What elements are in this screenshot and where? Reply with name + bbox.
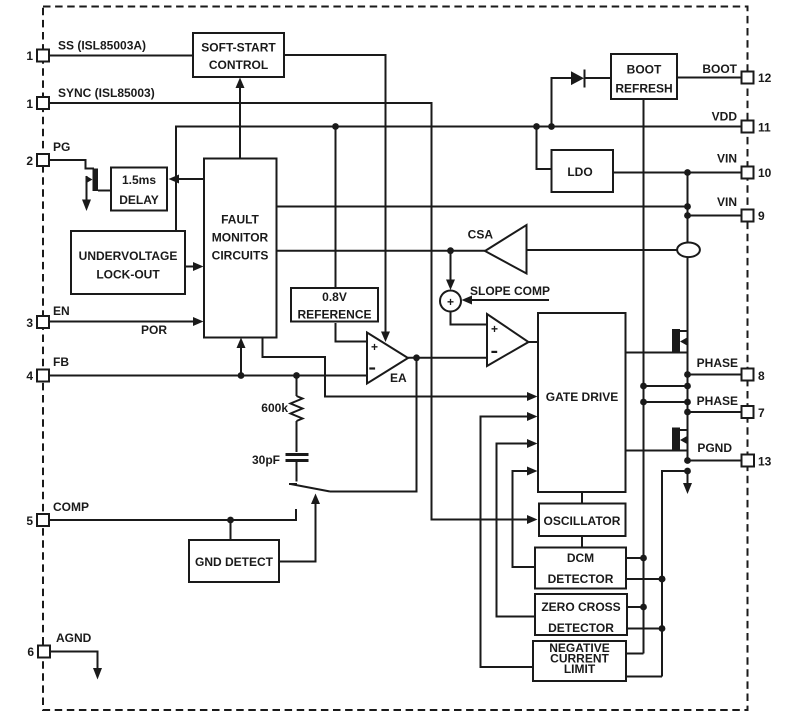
svg-text:13: 13 xyxy=(758,455,772,469)
pin 1 SS xyxy=(26,39,146,64)
wire COMP xyxy=(49,509,296,520)
pin 1 SYNC xyxy=(26,86,154,111)
wire soft-start output down to EA xyxy=(284,55,386,333)
wire SS to soft-start xyxy=(49,55,193,57)
svg-text:12: 12 xyxy=(758,71,772,85)
wire fault monitor to delay xyxy=(178,178,204,180)
svg-text:DCM: DCM xyxy=(567,551,594,565)
node junction COMP-gnd-detect xyxy=(227,517,234,524)
pin 11 VDD xyxy=(712,110,771,135)
block DCM detector xyxy=(535,548,626,589)
svg-text:FB: FB xyxy=(53,355,69,369)
svg-text:GND DETECT: GND DETECT xyxy=(195,555,274,569)
svg-text:5: 5 xyxy=(26,514,33,528)
svg-text:BOOT: BOOT xyxy=(627,63,662,77)
pin 13 PGND xyxy=(697,441,771,469)
wire DCM outputs right xyxy=(626,557,644,559)
svg-text:POR: POR xyxy=(141,323,167,337)
node junction VDD-LDO xyxy=(533,123,540,130)
svg-text:AGND: AGND xyxy=(56,631,92,645)
svg-text:6: 6 xyxy=(27,645,34,659)
svg-text:PG: PG xyxy=(53,140,70,154)
wire fault monitor up to soft-start xyxy=(239,87,241,159)
svg-text:CIRCUITS: CIRCUITS xyxy=(212,249,269,263)
block boot refresh xyxy=(611,54,677,99)
svg-text:DETECTOR: DETECTOR xyxy=(548,621,614,635)
pin 2 PG xyxy=(26,140,70,168)
svg-text:BOOT: BOOT xyxy=(702,62,737,76)
node junction CSA-summer xyxy=(447,247,454,254)
svg-text:OSCILLATOR: OSCILLATOR xyxy=(544,514,621,528)
wire DCM detector to gate drive xyxy=(513,471,536,567)
op-amp EA error amplifier xyxy=(367,333,408,386)
svg-text:UNDERVOLTAGE: UNDERVOLTAGE xyxy=(79,249,178,263)
wire boot refresh bottom rail xyxy=(643,99,645,654)
svg-text:2: 2 xyxy=(26,154,33,168)
svg-text:REFERENCE: REFERENCE xyxy=(297,308,371,322)
node junction VIN rail pin9 xyxy=(684,212,691,219)
block negative current limit xyxy=(533,641,626,681)
wire CSA down to summer xyxy=(450,251,452,281)
wire zero cross to gate drive xyxy=(497,444,536,617)
node junction EA output xyxy=(413,354,420,361)
wire right sense rail xyxy=(662,471,688,677)
wire AGND to ground xyxy=(50,652,98,669)
wire VIN rail down to high-side FET xyxy=(687,173,689,461)
wire VDD rail xyxy=(176,127,742,232)
svg-text:1: 1 xyxy=(26,97,33,111)
svg-text:SOFT-START: SOFT-START xyxy=(201,41,276,55)
wire SYNC to oscillator xyxy=(49,103,528,520)
node junction VIN rail top xyxy=(684,169,691,176)
svg-text:SS (ISL85003A): SS (ISL85003A) xyxy=(58,39,146,53)
wire VIN pin 9 xyxy=(688,215,742,217)
svg-text:+: + xyxy=(447,295,454,309)
pin 8 PHASE xyxy=(697,356,765,383)
ground arrow AGND xyxy=(93,668,102,680)
wire VDD down into LDO xyxy=(537,127,552,170)
wire EA output down to compensation switch xyxy=(330,358,417,492)
svg-text:PGND: PGND xyxy=(697,441,732,455)
wire gate drive rail cross 1 xyxy=(644,385,688,387)
wire sense to CSA input xyxy=(527,249,678,251)
summer slope comp adder xyxy=(440,291,461,312)
svg-text:1: 1 xyxy=(26,49,33,63)
wire zero cross outputs right xyxy=(627,606,644,608)
svg-text:+: + xyxy=(371,340,378,354)
pin 10 VIN xyxy=(717,152,772,181)
block gate drive xyxy=(538,313,626,492)
svg-text:ZERO CROSS: ZERO CROSS xyxy=(541,600,620,614)
svg-text:VIN: VIN xyxy=(717,152,737,166)
svg-text:EA: EA xyxy=(390,371,407,385)
wire CSA output to fault monitor xyxy=(277,250,486,252)
svg-text:SYNC (ISL85003): SYNC (ISL85003) xyxy=(58,86,155,100)
pin 6 AGND xyxy=(27,631,91,659)
wire fault monitor to gate drive xyxy=(263,338,529,397)
svg-text:COMP: COMP xyxy=(53,500,89,514)
wire FB up to fault monitor xyxy=(240,347,242,376)
node junction FB-600k xyxy=(293,372,300,379)
svg-text:REFRESH: REFRESH xyxy=(615,82,672,96)
pin 9 VIN xyxy=(717,195,765,223)
wire summer to PWM comparator plus xyxy=(451,312,488,325)
capacitor 30pF xyxy=(252,453,309,482)
wire gate drive rail cross 2 xyxy=(644,401,688,403)
wire negative current limit outputs right xyxy=(626,653,644,655)
wire VDD to 0.8V reference xyxy=(335,127,337,289)
wire reference to EA plus input xyxy=(336,323,368,342)
svg-text:3: 3 xyxy=(26,316,33,330)
svg-text:8: 8 xyxy=(758,369,765,383)
current sense ellipse xyxy=(677,243,700,258)
wire fault monitor to VIN rail xyxy=(277,206,688,208)
block 0.8V reference xyxy=(291,288,378,322)
svg-text:600k: 600k xyxy=(261,401,288,415)
wire COMP down to gnd detect xyxy=(230,520,232,540)
pin 3 EN xyxy=(26,304,69,330)
svg-text:CSA: CSA xyxy=(468,228,494,242)
svg-text:VIN: VIN xyxy=(717,195,737,209)
block soft-start control xyxy=(193,33,284,77)
svg-text:FAULT: FAULT xyxy=(221,213,259,227)
op-amp CSA current sense amplifier xyxy=(468,225,527,274)
svg-text:EN: EN xyxy=(53,304,70,318)
svg-text:0.8V: 0.8V xyxy=(322,290,347,304)
block GND detect xyxy=(189,540,279,582)
node junction FB-fault xyxy=(238,372,245,379)
svg-text:SLOPE COMP: SLOPE COMP xyxy=(470,284,550,298)
svg-text:+: + xyxy=(491,322,498,336)
transistor Q1 high-side FET xyxy=(626,329,688,354)
wire EN POR to fault monitor xyxy=(49,321,194,323)
wire PWM comparator to gate drive xyxy=(529,341,539,343)
svg-text:MONITOR: MONITOR xyxy=(212,231,269,245)
svg-text:CONTROL: CONTROL xyxy=(209,58,268,72)
wire undervoltage to fault monitor xyxy=(185,266,194,268)
block oscillator xyxy=(539,504,626,537)
block undervoltage lock-out xyxy=(71,231,185,294)
wire PGND to pin 13 xyxy=(688,460,742,462)
wire gate drive to oscillator xyxy=(581,492,583,504)
svg-text:9: 9 xyxy=(758,209,765,223)
svg-text:LOCK-OUT: LOCK-OUT xyxy=(96,268,160,282)
wire FB to EA minus input xyxy=(49,375,367,377)
wire negative current limit to gate drive xyxy=(481,417,534,668)
pin 4 FB xyxy=(26,355,69,383)
ground arrow below PG FET xyxy=(82,200,91,212)
switch compensation xyxy=(289,484,330,492)
pin 5 COMP xyxy=(26,500,89,528)
svg-text:30pF: 30pF xyxy=(252,453,280,467)
svg-text:PHASE: PHASE xyxy=(697,356,738,370)
ground arrow PGND xyxy=(687,471,689,484)
op-amp PWM comparator xyxy=(487,314,529,366)
svg-text:GATE DRIVE: GATE DRIVE xyxy=(546,390,618,404)
svg-text:4: 4 xyxy=(26,369,33,383)
block zero cross detector xyxy=(535,594,627,635)
svg-text:PHASE: PHASE xyxy=(697,394,738,408)
node junction VDD-reference xyxy=(332,123,339,130)
svg-text:DETECTOR: DETECTOR xyxy=(548,572,614,586)
transistor PG open-drain FET xyxy=(86,169,111,202)
delay block D1 1.5ms DELAY xyxy=(111,168,167,211)
pin 7 PHASE xyxy=(697,394,765,420)
wire oscillator to DCM detector xyxy=(581,536,583,548)
wire boot refresh to BOOT pin xyxy=(677,77,742,79)
svg-text:1.5ms: 1.5ms xyxy=(122,173,156,187)
svg-text:DELAY: DELAY xyxy=(119,193,159,207)
svg-text:11: 11 xyxy=(758,121,771,135)
wire EA output to PWM comparator xyxy=(408,357,487,359)
node junction VDD-diode xyxy=(548,123,555,130)
wire gnd detect to switch xyxy=(279,503,316,562)
svg-text:7: 7 xyxy=(758,406,765,420)
diode boot xyxy=(552,70,612,127)
block fault monitor circuits xyxy=(204,159,277,338)
node junction VIN rail fault xyxy=(684,203,691,210)
pin 12 BOOT xyxy=(702,62,771,85)
wire phase node to pin 7 xyxy=(688,411,742,413)
svg-text:LDO: LDO xyxy=(567,165,592,179)
wire slope comp into summer xyxy=(471,299,549,301)
svg-text:10: 10 xyxy=(758,166,772,180)
resistor 600k xyxy=(261,376,302,453)
transistor Q2 low-side FET xyxy=(626,428,688,452)
wire phase node to pin 8 xyxy=(688,374,742,376)
block LDO xyxy=(552,150,614,192)
svg-text:VDD: VDD xyxy=(712,110,738,124)
wire LDO to VIN pin 10 xyxy=(613,172,742,174)
wire PG to open-drain FET xyxy=(49,160,94,169)
svg-text:LIMIT: LIMIT xyxy=(564,662,596,676)
